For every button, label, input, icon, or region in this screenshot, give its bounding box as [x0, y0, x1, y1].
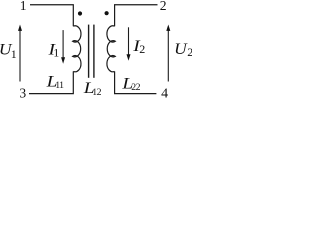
svg-text:2: 2 [139, 42, 145, 56]
svg-text:1: 1 [11, 47, 17, 61]
svg-text:4: 4 [161, 87, 168, 102]
svg-text:1: 1 [20, 0, 27, 13]
svg-text:3: 3 [19, 85, 26, 100]
svg-text:12: 12 [92, 87, 101, 98]
svg-text:1: 1 [53, 46, 59, 60]
svg-text:2: 2 [160, 0, 167, 13]
svg-text:2: 2 [187, 45, 192, 59]
svg-text:22: 22 [131, 82, 140, 93]
svg-text:11: 11 [55, 80, 64, 91]
